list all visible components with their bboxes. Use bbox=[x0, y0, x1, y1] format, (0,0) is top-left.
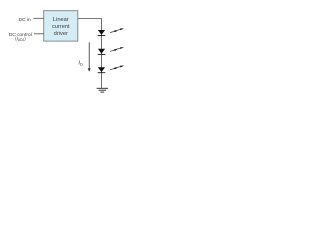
wire: DC control to U1 bbox=[34, 33, 44, 35]
current arrow ID bbox=[88, 42, 91, 72]
LED D3 light-emission arrows bbox=[110, 66, 124, 70]
LED D1 light-emission arrows bbox=[110, 28, 124, 32]
LED D2 bbox=[98, 49, 106, 55]
block U1: linear current driver bbox=[44, 11, 78, 41]
svg-text:driver: driver bbox=[54, 31, 68, 37]
svg-text:Linear: Linear bbox=[53, 17, 69, 23]
label: Linear current driver bbox=[52, 17, 70, 37]
svg-text:current: current bbox=[52, 24, 70, 30]
LED D1 bbox=[98, 30, 106, 36]
svg-text:DC in: DC in bbox=[18, 17, 31, 23]
wire: vertical LED string bus bbox=[100, 19, 102, 89]
LED D2 light-emission arrows bbox=[110, 47, 124, 51]
ground bbox=[97, 88, 109, 92]
wire: U1 output to LED string (top horizontal) bbox=[78, 18, 102, 20]
wire: DC in to U1 bbox=[34, 17, 44, 19]
LED D3 bbox=[98, 67, 106, 73]
svg-text:ID: ID bbox=[78, 61, 83, 67]
